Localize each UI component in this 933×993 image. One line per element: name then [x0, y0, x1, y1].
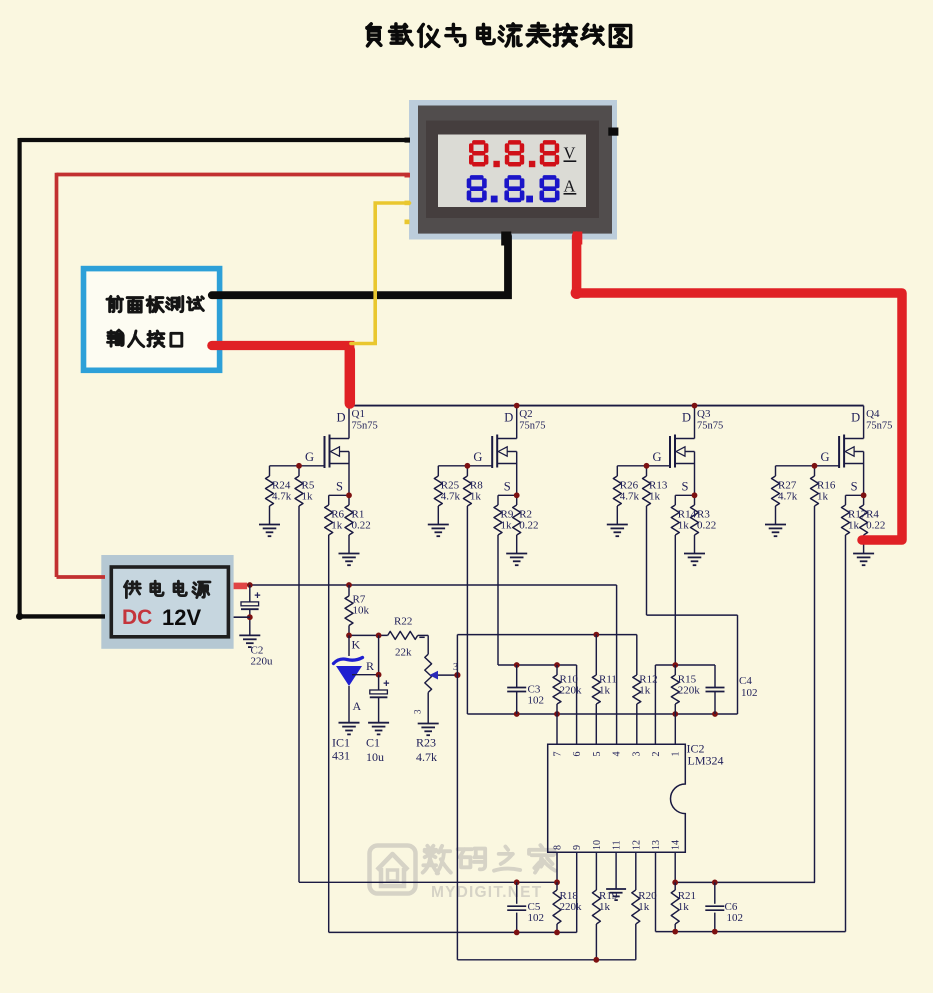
svg-text:3: 3	[631, 752, 642, 757]
svg-text:5: 5	[592, 752, 603, 757]
svg-text:1k: 1k	[817, 491, 829, 503]
svg-text:2: 2	[651, 752, 662, 757]
svg-text:S: S	[336, 480, 343, 494]
svg-text:0.22: 0.22	[866, 520, 885, 532]
svg-text:A: A	[564, 176, 576, 195]
svg-text:D: D	[504, 411, 513, 425]
svg-text:R: R	[366, 659, 374, 673]
svg-text:0.22: 0.22	[352, 520, 371, 532]
svg-text:R22: R22	[394, 616, 412, 628]
svg-text:102: 102	[741, 687, 758, 699]
svg-text:C4: C4	[739, 675, 752, 687]
svg-text:4.7k: 4.7k	[778, 491, 798, 503]
svg-text:G: G	[305, 450, 314, 464]
svg-text:12: 12	[631, 840, 642, 850]
svg-text:D: D	[851, 411, 860, 425]
svg-text:LM324: LM324	[688, 754, 724, 768]
svg-text:1k: 1k	[848, 520, 860, 532]
svg-text:G: G	[653, 450, 662, 464]
svg-text:K: K	[352, 638, 361, 652]
svg-text:R23: R23	[416, 736, 436, 750]
svg-text:Q4: Q4	[866, 408, 880, 420]
svg-text:102: 102	[727, 912, 744, 924]
svg-text:1k: 1k	[639, 685, 651, 697]
svg-text:14: 14	[671, 840, 682, 850]
svg-text:Q3: Q3	[697, 408, 711, 420]
svg-text:3: 3	[413, 709, 423, 714]
svg-text:4.7k: 4.7k	[620, 491, 640, 503]
svg-text:12V: 12V	[162, 605, 201, 630]
svg-text:8: 8	[553, 845, 564, 850]
svg-text:4.7k: 4.7k	[441, 491, 461, 503]
svg-text:431: 431	[332, 749, 350, 763]
svg-text:220k: 220k	[560, 685, 583, 697]
svg-text:13: 13	[651, 840, 662, 850]
svg-text:1k: 1k	[599, 685, 611, 697]
svg-text:10u: 10u	[366, 750, 384, 764]
svg-text:+: +	[254, 590, 260, 602]
svg-text:75n75: 75n75	[519, 421, 545, 432]
svg-text:1k: 1k	[331, 520, 343, 532]
svg-text:S: S	[682, 480, 689, 494]
svg-text:+: +	[383, 678, 389, 690]
svg-text:220k: 220k	[678, 685, 701, 697]
svg-text:4: 4	[612, 752, 623, 757]
svg-text:G: G	[473, 450, 482, 464]
svg-text:75n75: 75n75	[352, 421, 378, 432]
svg-text:1k: 1k	[649, 491, 661, 503]
svg-text:1: 1	[671, 752, 682, 757]
svg-text:S: S	[504, 480, 511, 494]
svg-text:0.22: 0.22	[697, 520, 716, 532]
svg-text:Q1: Q1	[352, 408, 365, 420]
svg-text:V: V	[564, 144, 576, 163]
svg-text:1k: 1k	[470, 491, 482, 503]
svg-text:MYDIGIT.NET: MYDIGIT.NET	[431, 884, 542, 901]
svg-text:G: G	[821, 450, 830, 464]
svg-text:75n75: 75n75	[697, 421, 723, 432]
svg-text:Q2: Q2	[519, 408, 532, 420]
svg-text:10: 10	[592, 840, 603, 850]
svg-text:1k: 1k	[302, 491, 314, 503]
svg-text:102: 102	[528, 912, 545, 924]
svg-text:1k: 1k	[501, 520, 513, 532]
svg-text:D: D	[337, 411, 346, 425]
svg-text:11: 11	[612, 840, 623, 850]
svg-text:6: 6	[572, 752, 583, 757]
svg-text:4.7k: 4.7k	[416, 750, 437, 764]
svg-text:220u: 220u	[251, 656, 274, 668]
svg-text:75n75: 75n75	[866, 421, 892, 432]
svg-text:10k: 10k	[353, 605, 370, 617]
svg-text:9: 9	[572, 845, 583, 850]
svg-text:7: 7	[553, 752, 564, 757]
svg-text:22k: 22k	[395, 647, 412, 659]
svg-text:S: S	[851, 480, 858, 494]
svg-text:4.7k: 4.7k	[272, 491, 292, 503]
svg-text:DC: DC	[122, 606, 152, 629]
svg-text:D: D	[682, 411, 691, 425]
svg-text:A: A	[353, 699, 362, 713]
svg-text:220k: 220k	[560, 901, 583, 913]
svg-text:1k: 1k	[638, 901, 650, 913]
svg-text:1k: 1k	[599, 901, 611, 913]
svg-text:1k: 1k	[678, 901, 690, 913]
svg-text:C1: C1	[366, 736, 380, 750]
svg-text:1k: 1k	[678, 520, 690, 532]
svg-text:0.22: 0.22	[519, 520, 538, 532]
svg-text:IC1: IC1	[332, 736, 350, 750]
svg-text:102: 102	[528, 695, 545, 707]
